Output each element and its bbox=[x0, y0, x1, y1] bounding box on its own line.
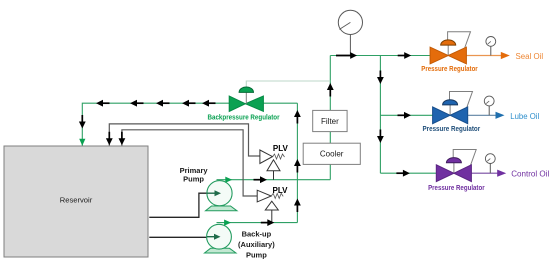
svg-text:Seal Oil: Seal Oil bbox=[516, 51, 544, 61]
flow arrows pump discharge lines bbox=[254, 176, 268, 183]
wire: riser from pumps to backpressure line bbox=[296, 103, 298, 222]
filter F bbox=[313, 110, 347, 131]
wire: pump2 discharge bbox=[217, 222, 298, 224]
backpressure regulator valve bbox=[208, 87, 280, 122]
svg-text:Filter: Filter bbox=[321, 117, 339, 126]
svg-text:Pump: Pump bbox=[183, 175, 204, 184]
pump P1 (primary) bbox=[206, 181, 238, 211]
PLV1 relief valve bbox=[260, 144, 289, 180]
green arrowheads on pump discharges bbox=[225, 177, 232, 183]
flow arrow up cooler riser bbox=[327, 83, 334, 97]
wire: cooler/filter riser bbox=[329, 56, 331, 180]
PLV2 relief valve bbox=[257, 186, 288, 223]
wire: pump2 suction bbox=[149, 236, 207, 238]
svg-text:Pressure Regulator: Pressure Regulator bbox=[421, 66, 478, 73]
svg-text:PLV: PLV bbox=[273, 186, 289, 195]
wire: lube inlet bbox=[380, 114, 432, 116]
wire: control inlet bbox=[380, 172, 436, 174]
wire: right branch drop bbox=[379, 56, 381, 174]
pressure regulator U2 (lube oil, blue) bbox=[423, 92, 540, 134]
svg-text:(Auxiliary): (Auxiliary) bbox=[238, 240, 275, 249]
svg-text:Reservoir: Reservoir bbox=[60, 196, 93, 205]
pressure regulator U3 (control oil, purple) bbox=[428, 150, 549, 193]
pump P2 (back-up) bbox=[205, 224, 237, 253]
wire: PLV2 relief return bbox=[122, 130, 257, 196]
svg-text:Pressure Regulator: Pressure Regulator bbox=[428, 185, 485, 192]
reservoir bbox=[4, 146, 148, 257]
cooler bbox=[303, 143, 360, 164]
wire: return line to reservoir bbox=[82, 103, 297, 145]
svg-text:Lube Oil: Lube Oil bbox=[510, 111, 539, 121]
wire: top main header bbox=[330, 55, 430, 57]
svg-text:Backpressure Regulator: Backpressure Regulator bbox=[208, 113, 280, 122]
wire: pilot sensing line of backpressure regulator bbox=[246, 81, 330, 87]
flow arrow lube inlet bbox=[398, 112, 412, 119]
pressure regulator U1 (seal oil, orange) bbox=[421, 32, 543, 73]
svg-text:Pump: Pump bbox=[246, 251, 267, 260]
flow arrows on return line bbox=[96, 100, 110, 107]
svg-text:PLV: PLV bbox=[273, 144, 289, 153]
wire: PLV1 relief return bbox=[109, 124, 260, 156]
flow arrows top header bbox=[336, 52, 357, 59]
flow arrow down into reservoir (green line) bbox=[79, 115, 86, 129]
flow arrows down right branch bbox=[377, 71, 384, 85]
green arrowhead into reservoir bbox=[79, 139, 85, 146]
arrowheads of relief returns at reservoir bbox=[106, 132, 113, 146]
flow arrows up riser x=297 bbox=[294, 110, 301, 124]
svg-text:Control Oil: Control Oil bbox=[511, 169, 549, 179]
pressure gauge PG (top) bbox=[338, 10, 362, 55]
svg-text:Back-up: Back-up bbox=[242, 230, 272, 239]
flow arrow control inlet bbox=[396, 170, 410, 177]
wire: pump1 discharge bbox=[217, 179, 331, 181]
svg-text:Cooler: Cooler bbox=[320, 150, 344, 159]
svg-text:Pressure Regulator: Pressure Regulator bbox=[423, 126, 481, 133]
wire: pump1 suction bbox=[149, 193, 207, 217]
